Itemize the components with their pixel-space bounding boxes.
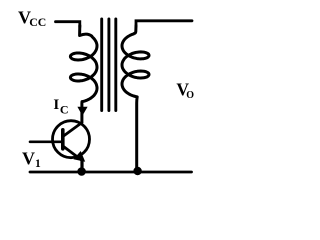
transformer secondary winding L2: [122, 26, 149, 171]
wire Vcc to primary winding top: [56, 22, 80, 27]
svg-text:IC: IC: [53, 97, 68, 116]
transformer primary winding L1: [70, 26, 97, 123]
wire secondary top to Vo rail: [136, 21, 192, 27]
base wire from V1: [30, 141, 62, 144]
transformer core: [102, 19, 116, 111]
junction dot at emitter / rail: [77, 167, 86, 176]
svg-text:V1: V1: [22, 149, 41, 171]
collector current arrow head (Ic): [77, 107, 87, 116]
svg-text:VCC: VCC: [18, 8, 46, 30]
transistor Q1 base bar: [61, 130, 65, 149]
emitter wire to rail: [80, 161, 83, 172]
emitter arrow head: [73, 151, 85, 162]
bottom ground rail: [30, 171, 192, 174]
transistor emitter line: [63, 146, 82, 161]
transistor Q1 circle: [53, 121, 90, 158]
svg-text:VO: VO: [176, 79, 194, 101]
transistor collector line: [63, 123, 82, 137]
junction dot at secondary / rail: [133, 167, 141, 175]
